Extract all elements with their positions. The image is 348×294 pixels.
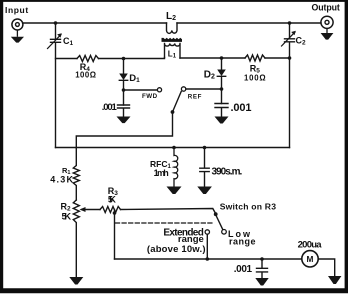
wire extended dashed xyxy=(116,222,213,224)
svg-text:Input: Input xyxy=(5,5,28,15)
diode D1 triangle xyxy=(119,74,128,81)
svg-text:390s.m.: 390s.m. xyxy=(212,166,243,177)
capacitor C1 xyxy=(51,23,61,148)
wire R3 junction down xyxy=(114,210,116,260)
inductor L1 xyxy=(165,44,181,59)
diode D2 xyxy=(217,58,225,104)
ground cap left xyxy=(117,117,131,124)
junction node C2 top xyxy=(288,21,292,25)
diode D1 xyxy=(119,59,127,106)
ground output xyxy=(321,33,334,40)
junction node D2 top xyxy=(220,56,224,60)
capacitor .001 bottom xyxy=(257,259,268,278)
junction node switch common xyxy=(171,110,175,114)
ground RFC1 xyxy=(167,187,182,195)
inductor L2 xyxy=(167,23,178,33)
svg-text:Switch on R3: Switch on R3 xyxy=(220,202,277,212)
ground cap right xyxy=(215,117,229,124)
capacitor .001 right xyxy=(215,104,228,117)
terminal REF xyxy=(181,87,185,91)
junction node D1 top xyxy=(122,57,126,61)
wire REF xyxy=(186,88,222,90)
transformer core xyxy=(162,38,183,42)
meter M1 xyxy=(302,251,318,267)
svg-text:range: range xyxy=(229,236,256,246)
switch blade low range xyxy=(216,216,222,229)
wire meter to ground xyxy=(318,259,335,276)
svg-text:M: M xyxy=(307,254,314,264)
svg-text:.001: .001 xyxy=(234,264,253,275)
resistor R3 xyxy=(100,207,120,213)
junction node extended rail xyxy=(206,257,210,261)
svg-text:100Ω: 100Ω xyxy=(244,73,266,82)
svg-text:5K: 5K xyxy=(62,211,72,222)
wire top rail left xyxy=(23,22,166,24)
svg-text:200ua: 200ua xyxy=(298,239,323,250)
junction node R5 C2 xyxy=(288,56,292,60)
capacitor 390 xyxy=(200,148,209,187)
junction node FWD D1 xyxy=(122,88,126,92)
svg-text:5K: 5K xyxy=(108,195,117,205)
svg-text:.001: .001 xyxy=(102,102,118,113)
terminal Extended xyxy=(205,230,209,234)
svg-text:Output: Output xyxy=(312,2,340,12)
wire second rail left xyxy=(56,58,165,59)
wire extended terminal down xyxy=(206,234,208,259)
wire bottom rail xyxy=(115,258,302,260)
inductor RFC1 xyxy=(174,148,178,187)
connector Output xyxy=(321,16,333,28)
ground input xyxy=(11,37,24,43)
resistor R2 xyxy=(73,200,79,277)
wire R3 to switch xyxy=(121,209,216,214)
wire FWD xyxy=(124,89,158,91)
svg-text:4.3K: 4.3K xyxy=(50,175,73,185)
ground meter xyxy=(328,276,341,284)
terminal FWD xyxy=(157,88,161,92)
connector Input xyxy=(12,19,23,30)
svg-text:100Ω: 100Ω xyxy=(75,70,96,79)
svg-text:.001: .001 xyxy=(231,102,252,114)
resistor R4 xyxy=(77,56,98,62)
junction node R3 down xyxy=(113,211,117,215)
junction node C1 top xyxy=(54,21,58,25)
resistor R1 xyxy=(73,148,79,200)
svg-text:(above 10w.): (above 10w.) xyxy=(147,244,206,255)
wire second rail right xyxy=(180,57,290,59)
arrow C2 xyxy=(291,31,296,36)
junction node cap bottom rail xyxy=(260,257,264,261)
wire middle rail xyxy=(56,147,290,149)
diode D2 triangle xyxy=(217,70,226,77)
junction node RFC1 rail xyxy=(172,146,176,150)
ground cap bottom xyxy=(255,278,268,286)
terminal Low xyxy=(222,230,227,235)
svg-text:FWD: FWD xyxy=(142,93,158,100)
resistor R5 xyxy=(245,55,265,61)
arrow C1 xyxy=(57,33,62,38)
junction node REF D2 xyxy=(220,87,224,91)
switch blade FWD/REF xyxy=(173,92,182,112)
ground R2 xyxy=(69,277,83,285)
junction node switch low common xyxy=(214,212,218,216)
ground 390 xyxy=(197,187,212,195)
capacitor .001 left xyxy=(118,105,130,117)
wire top rail right xyxy=(177,22,321,24)
arrow R2 wiper xyxy=(80,207,86,212)
junction node 390 rail xyxy=(203,146,207,150)
wire R2 wiper to R3 xyxy=(82,209,100,211)
capacitor C2 xyxy=(285,23,295,148)
wire switch common to rail xyxy=(76,112,172,148)
svg-text:REF: REF xyxy=(188,93,202,100)
svg-text:1mh: 1mh xyxy=(154,168,169,178)
